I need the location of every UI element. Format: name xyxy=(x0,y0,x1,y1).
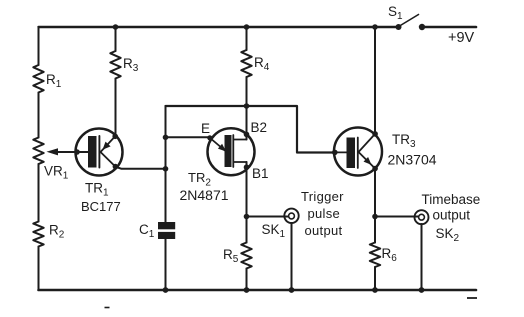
svg-text:BC177: BC177 xyxy=(81,199,121,214)
svg-text:+9V: +9V xyxy=(448,30,475,46)
svg-text:Trigger: Trigger xyxy=(301,189,344,204)
svg-text:pulse: pulse xyxy=(308,206,341,221)
svg-text:B1: B1 xyxy=(252,166,269,181)
svg-text:E: E xyxy=(201,121,210,136)
svg-text:2N4871: 2N4871 xyxy=(180,187,229,203)
svg-text:output: output xyxy=(305,223,343,238)
svg-text:output: output xyxy=(433,208,471,223)
svg-text:B2: B2 xyxy=(251,120,268,135)
svg-text:Timebase: Timebase xyxy=(422,192,481,207)
svg-text:2N3704: 2N3704 xyxy=(388,152,437,168)
